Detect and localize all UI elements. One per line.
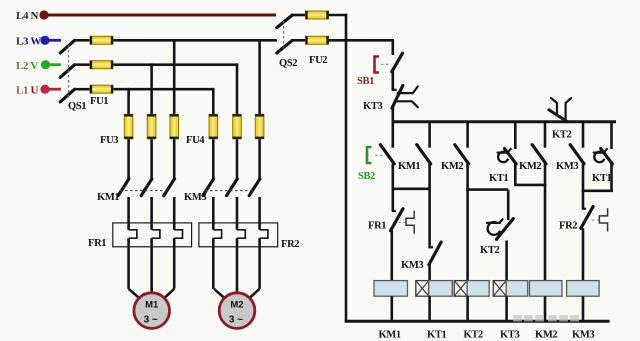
fuse FU3 element 2 [147, 114, 156, 139]
svg-text:KT1: KT1 [427, 330, 446, 341]
wire KM2 aux down to KT2 coil [466, 164, 469, 281]
svg-text:FU1: FU1 [90, 96, 108, 107]
svg-text:KM1: KM1 [97, 192, 119, 203]
SB1 link dashed [381, 63, 391, 65]
SB2 link dashed [375, 154, 383, 156]
control bus [392, 120, 617, 123]
switch QS1 blade L3 [60, 40, 74, 53]
wire FR2 to KM3 coil [582, 228, 585, 281]
wire KT3 to bus [391, 108, 394, 122]
svg-text:KM2: KM2 [535, 330, 557, 341]
wire from thermal relay [212, 238, 215, 289]
contact KT2 on bus [557, 103, 566, 121]
switch QS1 blade L2 [60, 65, 74, 78]
wire phase drop 1 [127, 88, 130, 179]
wire to thermal relay [258, 197, 261, 230]
node wire SB2-KM1 [392, 188, 431, 191]
wire KM1 aux down [428, 164, 431, 248]
contact KT3 blade [392, 86, 403, 109]
svg-text:M2: M2 [230, 300, 243, 311]
FR1 heater element 1 [129, 230, 137, 238]
wire branch KM2 aux2 [544, 122, 547, 148]
wire branch KT1 [514, 122, 517, 149]
wire FR1 to KM1 coil [390, 230, 393, 281]
wire L3 to FU2 [291, 39, 306, 42]
wire phase drop 5 [236, 63, 239, 178]
wire coil to bottom bus [390, 296, 393, 321]
svg-text:SB1: SB1 [357, 76, 374, 87]
svg-text:KM3: KM3 [401, 260, 423, 271]
contactor KM3 main contact 2 [227, 179, 238, 196]
contact FR1 blade [391, 209, 403, 231]
svg-text:FU4: FU4 [186, 135, 205, 146]
contact KT2 blade [497, 219, 514, 240]
svg-text:L3 W: L3 W [16, 36, 41, 48]
FR1 thermal element [406, 211, 414, 234]
contact KM3 nc seat [429, 246, 433, 248]
wire coil to bottom bus [505, 296, 508, 321]
svg-text:L2 V: L2 V [16, 60, 38, 72]
terminal dot U [40, 85, 49, 94]
FR1 link dashed [399, 221, 406, 223]
wire from thermal relay [150, 238, 153, 289]
wire L1 stub [47, 88, 61, 91]
contactor KM1 main contact 2 [141, 179, 152, 196]
wire to thermal relay [127, 197, 130, 230]
contactor KM3 main contact 3 [249, 179, 260, 196]
wire KM3 aux down [582, 164, 585, 210]
svg-text:KT3: KT3 [500, 330, 519, 341]
fuse FU4 element 3 [255, 114, 264, 139]
coil KM1 [374, 281, 408, 297]
wire KM2 aux2 down [544, 164, 547, 281]
svg-text:M1: M1 [145, 300, 159, 311]
fuse FU2 b [306, 36, 329, 44]
terminal dot N [39, 10, 48, 19]
wire FU2 to SB1 [391, 39, 394, 55]
fuse FU1 b [90, 61, 113, 69]
pushbutton SB1 blade [392, 53, 403, 72]
wire SB1 to KT3 [391, 72, 394, 91]
svg-text:KM2: KM2 [441, 161, 463, 172]
svg-text:KT2: KT2 [552, 130, 571, 141]
fuse FU3 element 3 [170, 114, 179, 139]
switch QS2 blade L3 [277, 40, 293, 53]
wire coil to bottom bus [466, 296, 469, 321]
wire L3 stub [47, 39, 61, 42]
timer KT3 x-element [493, 281, 506, 297]
contact KT1 b blade [601, 149, 613, 164]
svg-text:KT2: KT2 [464, 330, 483, 341]
wire branch KM3 aux [582, 122, 585, 148]
svg-text:KT1: KT1 [489, 173, 508, 184]
wire node to FR1 [391, 189, 394, 211]
wire L2 row [74, 63, 90, 66]
wire branch SB2 [391, 122, 394, 148]
KM3 link dashed [205, 190, 255, 192]
node wire KM3-KT1b [582, 190, 613, 193]
pushbutton SB2 actuator [367, 147, 372, 163]
svg-text:SB2: SB2 [358, 171, 375, 182]
svg-text:KM3: KM3 [572, 330, 594, 341]
svg-text:KM1: KM1 [379, 330, 401, 341]
faint watermark [513, 315, 579, 322]
svg-text:KT1: KT1 [592, 173, 611, 184]
svg-text:KM3: KM3 [184, 192, 206, 203]
QS1 link dashed [68, 45, 70, 99]
wire from thermal relay [173, 238, 176, 289]
KT3 delay element [395, 93, 413, 101]
FR2 heater element 2 [237, 230, 245, 238]
FR2 heater element 1 [213, 230, 221, 238]
contact KM1 aux blade [417, 145, 431, 164]
svg-text:FR1: FR1 [368, 221, 386, 232]
wire N row [47, 14, 276, 17]
wire phase drop 3 [173, 39, 176, 179]
KM1 link dashed [120, 190, 170, 192]
contact KM3 nc blade [429, 242, 441, 265]
svg-text:3 ~: 3 ~ [229, 315, 243, 326]
motor M1 [134, 293, 170, 329]
coil KT3 [506, 281, 528, 297]
wire phase drop 2 [150, 63, 153, 178]
contactor KM1 main contact 1 [118, 179, 129, 196]
wire N to FU2 [291, 14, 306, 17]
contact KM2 aux2 blade [532, 145, 546, 164]
bottom control bus [345, 320, 610, 323]
svg-text:KM1: KM1 [398, 161, 420, 172]
fuse FU4 element 2 [233, 114, 242, 139]
fuse FU1 a [90, 36, 113, 44]
svg-text:QS1: QS1 [68, 101, 86, 112]
contact KM2 aux blade [455, 145, 469, 164]
wire to thermal relay [173, 197, 176, 230]
wire N rail vertical [345, 14, 348, 323]
contact KT1 blade [505, 149, 517, 164]
switch QS1 blade L1 [60, 89, 74, 102]
svg-text:KM2: KM2 [519, 161, 541, 172]
FR2 thermal element [599, 208, 607, 231]
contact FR2 blade [581, 207, 593, 229]
wire L1 row [74, 88, 90, 91]
svg-text:KM3: KM3 [556, 161, 578, 172]
FR2 heater element 3 [260, 230, 268, 238]
svg-text:L4 N: L4 N [16, 10, 39, 22]
timer KT2 x-element [454, 281, 467, 297]
wire KT1 down [514, 164, 517, 185]
wire L3 row [74, 39, 90, 42]
switch QS2 blade N [277, 15, 293, 28]
svg-text:FU2: FU2 [309, 55, 327, 66]
FR1 heater element 2 [152, 230, 160, 238]
wire KM3 nc to KT1 coil [428, 264, 431, 281]
KT1 delay cup [498, 152, 508, 162]
QS2 link dashed [283, 21, 285, 50]
motor M2 leads [214, 289, 225, 298]
svg-text:FR1: FR1 [88, 238, 106, 249]
contact KT3 seat [392, 89, 397, 91]
wire branch KT1 b [610, 122, 613, 149]
terminal dot W [40, 36, 49, 45]
contact KM3 aux blade [570, 145, 584, 164]
wire to thermal relay [212, 197, 215, 230]
wire phase drop 6 [258, 39, 261, 179]
motor M1 leads [129, 289, 140, 298]
wire L2 stub [48, 63, 61, 66]
wire SB2 down [391, 164, 394, 190]
fuse FU4 element 1 [209, 114, 218, 139]
contact FR2 seat [582, 208, 586, 210]
wire to thermal relay [150, 197, 153, 230]
coil KM2 [530, 281, 563, 297]
contactor KM3 main contact 1 [203, 179, 214, 196]
terminal dot V [41, 60, 50, 69]
contact FR1 seat [392, 210, 396, 212]
KT1 b delay cup [594, 152, 604, 162]
fuse FU3 element 1 [124, 114, 133, 139]
wire N to corner [329, 14, 348, 17]
svg-text:3 ~: 3 ~ [144, 315, 158, 326]
wire KT1 b down [610, 164, 613, 191]
fuse FU2 a [306, 11, 329, 19]
pushbutton SB1 actuator [375, 57, 380, 73]
wire L3 to SB1 corner [329, 39, 393, 42]
svg-text:FR2: FR2 [559, 221, 577, 232]
wire KT2 to KT3 coil [505, 241, 508, 282]
svg-text:FU3: FU3 [100, 135, 118, 146]
wire from thermal relay [127, 238, 130, 289]
svg-text:FR2: FR2 [281, 239, 299, 250]
wire coil to bottom bus [544, 296, 547, 321]
svg-text:KT2: KT2 [480, 245, 499, 256]
coil KM3 [567, 281, 600, 297]
wire coil to bottom bus [582, 296, 585, 321]
coil KT2 [467, 281, 489, 297]
svg-text:L1 U: L1 U [16, 85, 39, 97]
pushbutton SB2 blade [380, 145, 394, 164]
wire from thermal relay [258, 238, 261, 289]
wire to thermal relay [236, 197, 239, 230]
wire branch KM2 aux [466, 122, 469, 148]
thermal relay FR2 box [199, 223, 278, 247]
motor M2 [219, 293, 255, 329]
contactor KM1 main contact 3 [164, 179, 175, 196]
wire KT2 branch vertical [507, 190, 510, 220]
svg-text:QS2: QS2 [279, 58, 297, 69]
wire branch KM1 aux [428, 122, 431, 148]
FR1 heater element 3 [174, 230, 182, 238]
wire coil to bottom bus [428, 296, 431, 321]
coil KT1 [429, 281, 453, 297]
timer KT1 x-element [416, 281, 429, 297]
KT2 delay cup [488, 222, 500, 235]
fuse FU1 c [90, 85, 113, 93]
wire phase drop 4 [212, 88, 215, 179]
svg-text:KT3: KT3 [363, 101, 382, 112]
FR2 link dashed [592, 219, 599, 221]
wire from thermal relay [236, 238, 239, 289]
thermal relay FR1 box [113, 223, 192, 247]
node wire KT1-KM2coil [514, 184, 546, 187]
node wire KM2-KT2branch [466, 188, 508, 191]
